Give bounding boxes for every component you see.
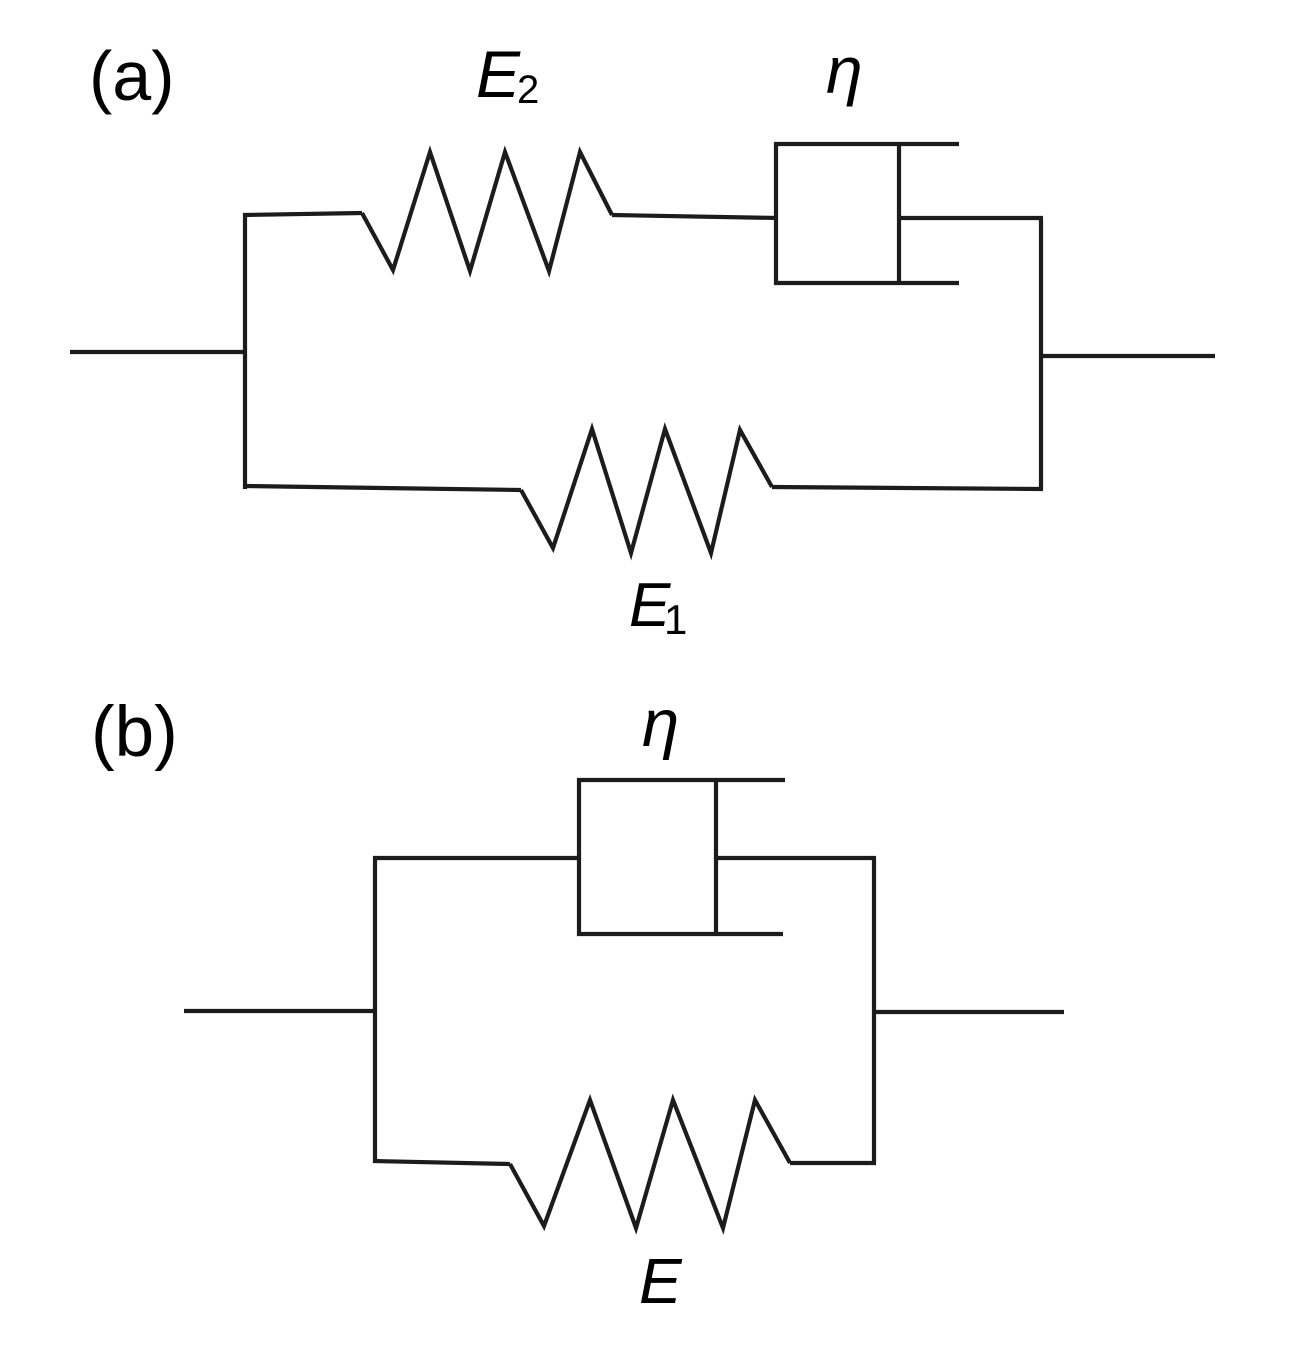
svg-text:2: 2 [517,68,539,112]
dashpot eta (b): cylinder [579,780,785,934]
wire: spring E1 to right node (a) [772,487,1043,489]
wire: left input lead (b) [184,1009,377,1013]
svg-text:η: η [826,33,863,107]
wire: right output lead (a) [1041,354,1215,358]
dashpot eta (b): piston rod [716,856,876,860]
node: right junction vertical (b) [872,858,876,1163]
spring E2 [362,152,612,271]
svg-text:η: η [642,686,679,761]
wire: right output lead (b) [874,1010,1064,1014]
dashpot eta (b): piston plate [714,780,718,934]
dashpot eta (a): piston plate [897,144,901,283]
spring E [510,1100,790,1228]
dashpot eta (a): piston rod [899,216,1043,220]
wire: bottom branch from node to spring E (b) [373,1161,510,1164]
svg-text:(b): (b) [91,693,178,772]
wire: top branch from node to dashpot (b) [373,856,581,860]
svg-text:E: E [639,1245,683,1317]
svg-text:(a): (a) [89,37,175,115]
svg-text:1: 1 [664,596,687,643]
wire: bottom branch from node to spring E1 (a) [245,486,521,490]
node: right junction vertical (a) [1039,218,1043,489]
node: left junction vertical (a) [243,213,247,489]
node: left junction vertical (b) [373,857,377,1163]
wire: spring E2 to dashpot (a) [612,215,778,218]
dashpot eta (a): cylinder [776,144,959,283]
wire: spring E to right node (b) [790,1161,876,1165]
svg-text:E: E [476,37,521,111]
wire: top branch from node to spring (a) [243,213,362,215]
spring E1 [521,429,772,553]
wire: left input lead (a) [70,350,245,354]
